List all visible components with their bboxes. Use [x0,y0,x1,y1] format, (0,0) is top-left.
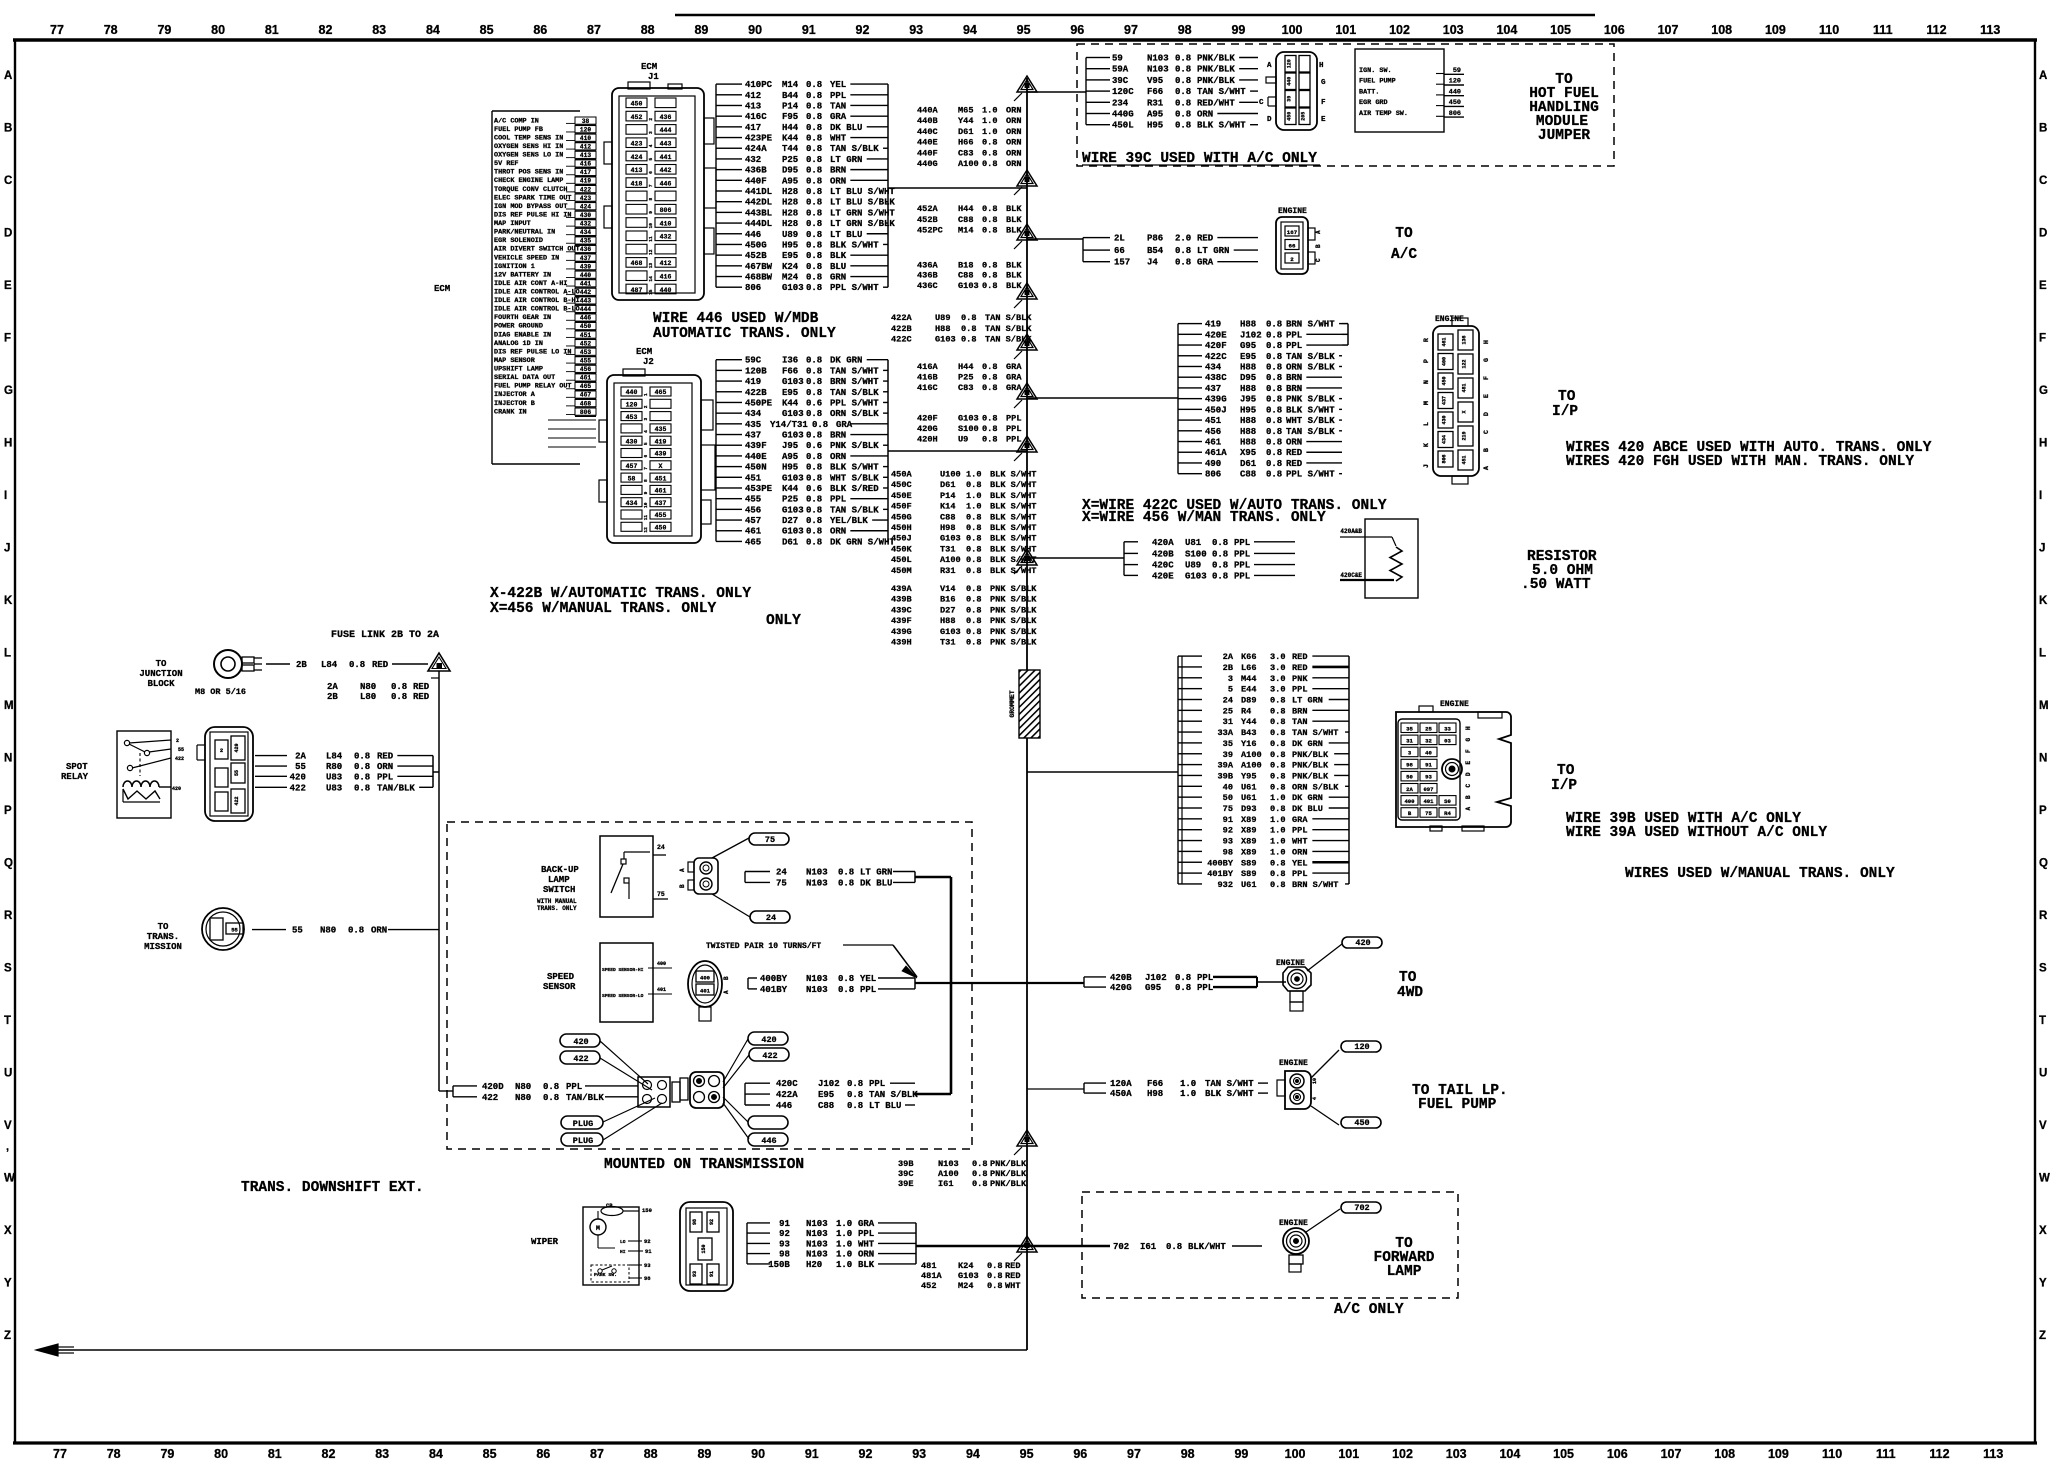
svg-text:0.8: 0.8 [1175,121,1191,131]
svg-text:JUNCTION: JUNCTION [139,669,182,679]
svg-text:A/C ONLY: A/C ONLY [1334,1302,1404,1318]
svg-text:A100: A100 [938,1169,959,1179]
svg-text:P25: P25 [782,495,798,505]
svg-text:450A: 450A [891,470,912,480]
svg-text:0.8: 0.8 [966,523,981,533]
svg-text:0.8: 0.8 [1266,330,1282,340]
svg-text:0.8: 0.8 [1266,405,1282,415]
svg-text:TO: TO [1395,226,1413,242]
svg-text:450: 450 [1354,1118,1369,1128]
svg-text:H88: H88 [1240,384,1256,394]
svg-text:RED: RED [1005,1261,1020,1271]
svg-text:91: 91 [779,1219,790,1229]
svg-text:0.8: 0.8 [806,251,822,261]
svg-text:1.0: 1.0 [1270,815,1285,825]
svg-text:452: 452 [921,1281,936,1291]
svg-text:0.8: 0.8 [1270,750,1285,760]
svg-text:A95: A95 [1147,110,1163,120]
svg-text:0.8: 0.8 [1266,448,1282,458]
svg-text:456: 456 [745,505,761,515]
svg-text:0.8: 0.8 [806,219,822,229]
svg-text:112: 112 [1929,1447,1949,1461]
svg-text:420C: 420C [776,1079,798,1089]
svg-text:ORN: ORN [1006,138,1021,148]
svg-text:932: 932 [1218,880,1233,890]
svg-text:K: K [1423,443,1430,447]
svg-text:A: A [723,990,730,994]
svg-text:437: 437 [655,500,667,507]
svg-text:H88: H88 [935,324,950,334]
svg-text:0.8: 0.8 [961,334,976,344]
svg-text:BLK/WHT: BLK/WHT [1188,1242,1226,1252]
svg-text:H88: H88 [1240,438,1256,448]
backup A/B connector [679,858,718,894]
connector flag A6 [1014,383,1037,408]
svg-text:436B: 436B [917,270,938,280]
svg-text:440E: 440E [917,138,938,148]
svg-text:450E: 450E [891,491,912,501]
svg-text:468: 468 [631,260,643,267]
svg-text:35: 35 [1406,725,1413,732]
svg-text:452: 452 [631,114,643,121]
svg-text:0.8: 0.8 [972,1179,987,1189]
svg-text:99: 99 [1234,1447,1248,1461]
svg-text:1.0: 1.0 [1180,1089,1196,1099]
svg-text:0.8: 0.8 [1270,869,1285,879]
svg-text:PPL S/WHT: PPL S/WHT [830,398,879,408]
svg-text:U89: U89 [935,313,950,323]
svg-text:0.8: 0.8 [961,313,976,323]
svg-text:432: 432 [660,234,672,241]
svg-text:RED: RED [413,682,430,692]
wire list 452A-PC [917,204,1022,235]
svg-text:420: 420 [761,1035,776,1045]
svg-text:FUEL PUMP FB: FUEL PUMP FB [494,126,543,134]
svg-text:91: 91 [709,1271,715,1277]
svg-text:442: 442 [580,289,591,296]
svg-text:P: P [4,805,12,817]
svg-text:C: C [4,175,12,187]
svg-text:93: 93 [779,1239,790,1249]
svg-text:420B: 420B [1152,549,1174,559]
svg-text:K24: K24 [958,1261,973,1271]
svg-text:ORN: ORN [371,926,387,936]
svg-text:450: 450 [1442,376,1448,385]
svg-text:401: 401 [700,988,711,995]
svg-text:J2: J2 [643,357,654,367]
svg-text:11: 11 [648,236,654,242]
tail lamp wire rows [1084,1079,1268,1099]
svg-text:9: 9 [648,211,654,214]
svg-text:40: 40 [1425,750,1432,757]
svg-text:105: 105 [1550,23,1571,37]
svg-text:0.8: 0.8 [1175,258,1191,268]
svg-text:439G: 439G [891,627,912,637]
svg-text:1.0: 1.0 [1180,1079,1196,1089]
connector flag A2 [1014,170,1037,195]
svg-text:TAN S/BLK: TAN S/BLK [830,388,879,398]
svg-text:PPL: PPL [1006,424,1021,434]
svg-text:440: 440 [626,389,638,396]
connector flag A7 [1014,436,1037,461]
svg-text:419: 419 [745,377,761,387]
svg-text:RED: RED [1292,652,1307,662]
svg-text:H98: H98 [1147,1089,1163,1099]
svg-text:401: 401 [657,987,666,993]
svg-text:UPSHIFT LAMP: UPSHIFT LAMP [494,366,543,374]
svg-text:452PC: 452PC [917,226,943,236]
svg-text:BATT.: BATT. [1359,88,1379,96]
svg-text:BLK S/WHT: BLK S/WHT [1286,405,1335,415]
svg-text:INJECTOR B: INJECTOR B [494,400,535,408]
svg-text:107: 107 [1658,23,1679,37]
svg-text:SPEED: SPEED [547,972,575,982]
svg-text:0.8: 0.8 [806,198,822,208]
svg-text:422B: 422B [891,324,912,334]
svg-text:167: 167 [1287,229,1298,236]
svg-text:422: 422 [175,756,184,762]
svg-text:0.8: 0.8 [354,783,370,793]
svg-text:BLK: BLK [1006,260,1022,270]
svg-text:F66: F66 [1147,87,1163,97]
svg-text:A: A [4,70,12,82]
svg-text:G103: G103 [958,1271,979,1281]
svg-text:C83: C83 [958,383,973,393]
svg-text:1: 1 [643,393,649,396]
tag plug2 [561,1133,603,1146]
svg-text:R4: R4 [1444,810,1451,817]
svg-text:420C: 420C [1152,561,1174,571]
svg-text:PPL: PPL [1197,973,1213,983]
svg-text:806: 806 [1205,470,1221,480]
svg-text:422C: 422C [891,334,912,344]
svg-text:450L: 450L [1112,121,1134,131]
svg-text:H: H [1319,62,1324,70]
speed sensor box [600,943,672,1022]
svg-text:N103: N103 [806,985,828,995]
svg-text:P25: P25 [782,155,798,165]
svg-text:B: B [1483,448,1490,452]
svg-text:N103: N103 [938,1159,959,1169]
svg-text:420D: 420D [482,1082,504,1092]
svg-text:X=456 W/MANUAL TRANS. ONLY: X=456 W/MANUAL TRANS. ONLY [490,601,717,617]
svg-text:S: S [4,963,12,975]
svg-text:441: 441 [580,280,591,287]
svg-text:441DL: 441DL [745,187,772,197]
svg-text:120C: 120C [1112,87,1134,97]
svg-text:419: 419 [1205,320,1221,330]
svg-text:ORN: ORN [1006,127,1021,137]
svg-text:IDLE AIR CONTROL B-LO: IDLE AIR CONTROL B-LO [494,306,580,314]
svg-text:CHECK ENGINE LAMP: CHECK ENGINE LAMP [494,177,563,185]
svg-text:H28: H28 [782,208,798,218]
svg-text:450PE: 450PE [745,398,773,408]
svg-text:X: X [4,1225,12,1237]
svg-text:DK BLU: DK BLU [860,878,892,888]
svg-text:B18: B18 [958,260,973,270]
svg-text:E: E [1321,116,1326,124]
svg-text:55: 55 [231,927,238,934]
svg-text:G: G [1483,358,1490,362]
svg-text:S89: S89 [1241,858,1256,868]
svg-text:451: 451 [1462,455,1468,464]
svg-text:L84: L84 [321,660,338,670]
svg-text:401BY: 401BY [760,985,788,995]
hot fuel module dashed box [1077,44,1614,166]
svg-text:0.8: 0.8 [966,595,981,605]
svg-text:93: 93 [912,1447,926,1461]
svg-text:3: 3 [1228,674,1233,684]
svg-text:66: 66 [1114,246,1125,256]
wire list 439A-H [891,584,1037,648]
engine connector forward [1279,1219,1309,1272]
svg-text:400BY: 400BY [760,974,788,984]
svg-text:G103: G103 [958,413,979,423]
svg-text:G103: G103 [782,473,804,483]
svg-text:EGR GRD: EGR GRD [1359,99,1388,107]
svg-text:38: 38 [582,118,590,125]
svg-text:434: 434 [1205,362,1222,372]
svg-text:Y: Y [2039,1278,2047,1290]
svg-text:E44: E44 [1241,685,1256,695]
svg-text:C: C [1465,784,1472,788]
svg-text:U9: U9 [958,435,968,445]
svg-text:N80: N80 [360,682,376,692]
svg-text:F: F [1483,376,1490,380]
svg-text:416A: 416A [917,362,938,372]
svg-text:WHT: WHT [1005,1281,1020,1291]
svg-text:0.8: 0.8 [966,544,981,554]
svg-text:J102: J102 [1145,973,1167,983]
svg-text:91: 91 [802,23,816,37]
svg-text:25: 25 [1223,706,1233,716]
backup wire rows [745,868,915,889]
border frame [13,38,2037,41]
svg-text:M44: M44 [1241,674,1256,684]
svg-text:6: 6 [643,454,649,457]
svg-text:X89: X89 [1241,837,1256,847]
svg-text:GRA: GRA [836,420,853,430]
svg-text:D: D [2039,228,2047,240]
svg-text:H44: H44 [958,362,973,372]
svg-text:413: 413 [745,101,761,111]
svg-text:FUSE LINK 2B TO 2A: FUSE LINK 2B TO 2A [331,630,439,641]
svg-text:P86: P86 [1147,234,1163,244]
tag blank [748,1116,788,1129]
arrowhead [36,1344,58,1356]
svg-text:ORN: ORN [1286,438,1302,448]
svg-text:N80: N80 [320,926,336,936]
svg-text:83: 83 [375,1447,389,1461]
svg-text:FUEL PUMP: FUEL PUMP [1359,78,1396,86]
svg-text:424: 424 [631,154,643,161]
grommet [1009,670,1040,738]
svg-text:461: 461 [1205,438,1222,448]
svg-text:MAP SENSOR: MAP SENSOR [494,357,536,365]
svg-text:J: J [1423,464,1430,468]
svg-text:U83: U83 [326,783,342,793]
A/C wire list [1083,234,1258,268]
svg-text:H98: H98 [940,523,955,533]
svg-text:BLOCK: BLOCK [147,679,175,689]
connector flag A4 [1014,283,1037,308]
svg-text:D27: D27 [782,516,798,526]
svg-text:ORN: ORN [1197,110,1213,120]
svg-text:457: 457 [745,516,761,526]
svg-text:BLK: BLK [1006,204,1022,214]
connector flag A10 [1014,1236,1037,1261]
svg-text:X89: X89 [1241,815,1256,825]
svg-text:WHT S/BLK: WHT S/BLK [830,473,879,483]
svg-text:WIPER: WIPER [531,1237,559,1247]
svg-text:IGNITION 1: IGNITION 1 [494,263,535,271]
svg-text:PNK/BLK: PNK/BLK [1292,750,1329,760]
svg-text:450G: 450G [891,512,912,522]
svg-text:5: 5 [1228,685,1233,695]
svg-text:0.8: 0.8 [806,262,822,272]
svg-text:9: 9 [643,491,649,494]
svg-text:450J: 450J [891,534,912,544]
svg-text:BRN: BRN [830,166,846,176]
svg-text:450H: 450H [891,523,912,533]
svg-text:1.0: 1.0 [836,1229,852,1239]
svg-text:PPL: PPL [830,495,846,505]
svg-text:3.0: 3.0 [1270,663,1285,673]
svg-text:92: 92 [856,23,870,37]
svg-text:39C: 39C [898,1169,913,1179]
svg-text:H: H [1483,340,1490,344]
svg-text:03: 03 [1444,737,1451,744]
svg-text:0.8: 0.8 [966,627,981,637]
svg-text:441: 441 [660,154,672,161]
svg-text:TO: TO [158,922,169,932]
svg-text:113: 113 [1983,1447,2003,1461]
svg-text:CB: CB [606,1202,613,1209]
svg-text:0.8: 0.8 [348,926,364,936]
svg-text:75: 75 [765,835,775,845]
svg-text:ORN: ORN [1006,159,1021,169]
svg-text:YEL: YEL [860,974,876,984]
svg-text:PPL: PPL [830,91,846,101]
svg-text:TAN S/WHT: TAN S/WHT [1292,728,1338,738]
svg-text:0.8: 0.8 [806,134,822,144]
svg-text:93: 93 [1425,774,1432,781]
tag wires [712,838,749,858]
svg-text:LT BLU: LT BLU [869,1101,901,1111]
svg-text:LAMP: LAMP [548,875,570,885]
svg-text:439C: 439C [891,605,912,615]
svg-text:435: 435 [580,238,591,245]
svg-text:B44: B44 [782,91,799,101]
svg-text:YEL: YEL [1292,858,1307,868]
svg-text:C88: C88 [940,512,955,522]
svg-text:R: R [2039,910,2048,922]
svg-text:0.8: 0.8 [812,420,828,430]
tag 420 [560,1034,600,1047]
svg-text:PNK S/BLK: PNK S/BLK [990,627,1037,637]
twisted pair wire to bus [915,982,1084,984]
svg-text:ECM: ECM [434,284,450,294]
svg-text:U89: U89 [1185,561,1201,571]
svg-text:BLK S/WHT: BLK S/WHT [830,463,879,473]
svg-text:TO: TO [1558,389,1576,405]
svg-text:HI: HI [620,1249,626,1255]
svg-text:10: 10 [1312,1078,1318,1084]
svg-text:422: 422 [573,1054,588,1064]
svg-text:420E: 420E [1205,330,1227,340]
svg-text:M: M [2039,700,2049,712]
svg-text:0.8: 0.8 [982,260,997,270]
svg-text:439H: 439H [891,638,912,648]
svg-text:GRA: GRA [1006,362,1022,372]
svg-text:450: 450 [580,323,591,330]
I/P wire list [1178,320,1348,480]
svg-text:3.0: 3.0 [1270,674,1285,684]
svg-text:M24: M24 [782,273,799,283]
svg-text:0.8: 0.8 [1270,880,1285,890]
svg-text:A: A [1465,807,1472,811]
svg-text:100: 100 [1282,23,1303,37]
svg-text:0.8: 0.8 [847,1079,863,1089]
svg-text:S: S [2039,963,2047,975]
svg-text:157: 157 [1114,258,1130,268]
svg-text:RED: RED [413,692,430,702]
svg-text:400: 400 [700,975,710,982]
svg-text:GRA: GRA [830,112,847,122]
svg-text:0.8: 0.8 [1175,246,1191,256]
svg-text:X95: X95 [1240,448,1256,458]
svg-text:0.8: 0.8 [1270,804,1285,814]
svg-text:461: 461 [655,488,667,495]
svg-text:V: V [2039,1120,2047,1132]
svg-text:98: 98 [692,1219,698,1225]
svg-text:BRN: BRN [1292,706,1307,716]
svg-text:77: 77 [53,1447,67,1461]
svg-text:A95: A95 [782,452,798,462]
svg-text:G103: G103 [782,409,804,419]
svg-text:122: 122 [1462,359,1468,368]
svg-text:15: 15 [648,289,654,295]
svg-text:452: 452 [580,340,591,347]
svg-text:N103: N103 [806,1219,828,1229]
svg-text:453PE: 453PE [745,484,773,494]
svg-text:55: 55 [292,926,303,936]
wire branch to hot fuel rows [1027,91,1086,93]
svg-text:Q: Q [4,858,13,870]
svg-text:H44: H44 [782,123,799,133]
svg-text:39A: 39A [1218,761,1234,771]
svg-text:93: 93 [692,1271,698,1277]
svg-text:83: 83 [372,23,386,37]
svg-text:B: B [723,976,730,980]
svg-text:F: F [1321,99,1326,107]
svg-text:422: 422 [580,186,591,193]
svg-text:RED/WHT: RED/WHT [1197,98,1235,108]
svg-text:82: 82 [319,23,333,37]
svg-text:0.8: 0.8 [966,555,981,565]
svg-text:TRANS. DOWNSHIFT EXT.: TRANS. DOWNSHIFT EXT. [241,1180,424,1196]
svg-text:439: 439 [580,263,591,270]
svg-text:U: U [2039,1068,2047,1080]
svg-text:0.8: 0.8 [806,80,822,90]
svg-text:452B: 452B [745,251,767,261]
svg-text:LT GRN S/BLK: LT GRN S/BLK [830,219,895,229]
wire 702 to forward lamp [916,1245,1110,1248]
svg-text:806: 806 [660,207,672,214]
svg-text:439G: 439G [1205,395,1227,405]
wiper wire rows [747,1219,916,1270]
svg-text:PPL: PPL [1234,561,1250,571]
